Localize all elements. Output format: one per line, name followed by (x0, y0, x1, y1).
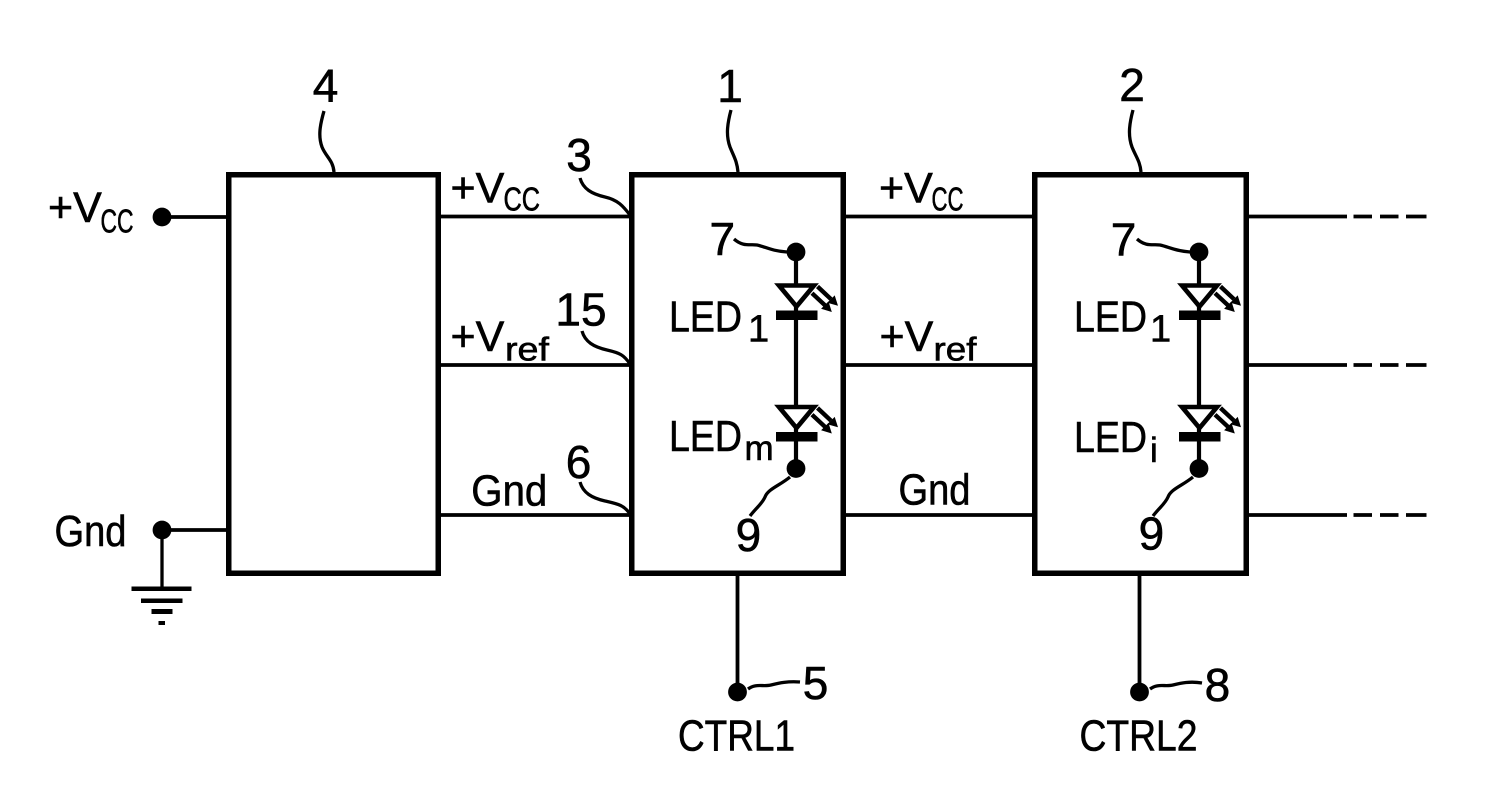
block 2 (LED module box) (1035, 175, 1247, 574)
leader squiggle for 15 (582, 331, 630, 364)
svg-text:LED: LED (669, 413, 742, 461)
svg-text:CC: CC (101, 203, 134, 240)
wire LED string (box2) (1197, 252, 1201, 468)
svg-text:LED: LED (1074, 294, 1147, 342)
svg-text:9: 9 (1139, 508, 1165, 560)
label LEDm (box1) (669, 413, 774, 468)
leader squiggle for 2 (1129, 110, 1141, 172)
label LED1 (box1) (669, 294, 769, 351)
svg-text:+V: +V (451, 165, 505, 213)
svg-text:CTRL1: CTRL1 (678, 712, 795, 761)
label +Vref between box1 and box2 (880, 313, 978, 368)
svg-text:Gnd: Gnd (55, 507, 127, 556)
block 4 (power supply box) (229, 175, 439, 574)
wire bus +Vref box1 to box2 (845, 363, 1033, 367)
svg-text:6: 6 (566, 436, 592, 488)
label LEDi (box2) (1074, 414, 1158, 470)
node CTRL1 dot (728, 683, 747, 702)
svg-text:ref: ref (505, 331, 550, 368)
leader squiggle for 7 (box2) (1137, 239, 1190, 252)
svg-text:LED: LED (669, 294, 742, 342)
node CTRL2 dot (1130, 683, 1149, 702)
wire +Vcc input (165, 215, 227, 219)
svg-text:CC: CC (504, 181, 541, 218)
svg-text:LED: LED (1074, 414, 1147, 462)
svg-text:Gnd: Gnd (471, 467, 547, 516)
svg-text:15: 15 (555, 284, 606, 336)
leader squiggle for 5 (748, 682, 800, 689)
svg-text:+V: +V (451, 313, 505, 361)
LEDi symbol (box2) (1179, 407, 1241, 442)
leader squiggle for 9 (box1) (750, 477, 790, 516)
svg-text:4: 4 (313, 60, 339, 112)
node 7 dot (box2) (1190, 243, 1209, 262)
svg-text:i: i (1150, 431, 1158, 470)
node +Vcc input dot (153, 208, 172, 227)
wire bus +Vcc box1 to box2 (845, 215, 1033, 219)
node 7 dot (box1) (787, 243, 806, 262)
node 9 dot (box2) (1190, 459, 1209, 478)
leader squiggle for 3 (580, 178, 630, 215)
LED1 symbol (box2) (1179, 286, 1241, 321)
wire bus Gnd box4 to box1 (440, 513, 630, 517)
wire bus +Vref box2 continuation (1248, 363, 1347, 367)
svg-text:+V: +V (880, 313, 934, 361)
svg-text:2: 2 (1119, 59, 1145, 111)
wire dashed +Vcc continuation (1354, 215, 1427, 219)
svg-text:7: 7 (1111, 214, 1137, 266)
node Gnd input dot (153, 521, 172, 540)
svg-text:1: 1 (748, 309, 769, 351)
wire LED string (box1) (794, 252, 798, 468)
label +Vref between box4 and box1 (451, 313, 550, 368)
leader squiggle for 8 (1150, 682, 1202, 689)
block 1 (LED module box) (632, 175, 844, 574)
wire CTRL1 (736, 576, 740, 692)
wire dashed +Vref continuation (1354, 363, 1427, 367)
wire Gnd input (165, 528, 227, 532)
wire bus +Vcc box4 to box1 (440, 215, 630, 219)
LED1 symbol (box1) (776, 286, 838, 321)
ground symbol (132, 530, 192, 625)
svg-text:ref: ref (934, 331, 978, 368)
label +Vcc between box1 and box2 (879, 165, 964, 218)
svg-text:9: 9 (736, 509, 762, 561)
wire bus Gnd box2 continuation (1248, 513, 1347, 517)
svg-text:5: 5 (803, 657, 829, 709)
svg-text:CC: CC (932, 181, 964, 218)
leader squiggle for 6 (580, 482, 630, 514)
svg-text:m: m (745, 429, 774, 468)
wire dashed Gnd continuation (1354, 513, 1427, 517)
svg-text:7: 7 (710, 213, 736, 265)
LEDm symbol (box1) (776, 407, 838, 442)
wire bus +Vcc box2 continuation (1248, 215, 1347, 219)
wire bus +Vref box4 to box1 (440, 363, 630, 367)
svg-text:3: 3 (566, 129, 592, 181)
label +Vcc between box4 and box1 (451, 165, 541, 218)
leader squiggle for 4 (320, 111, 334, 172)
label +Vcc input (48, 184, 134, 240)
leader squiggle for 9 (box2) (1153, 477, 1193, 516)
wire CTRL2 (1138, 576, 1142, 692)
leader squiggle for 7 (box1) (734, 239, 787, 252)
node 9 dot (box1) (787, 459, 806, 478)
svg-text:Gnd: Gnd (899, 466, 971, 515)
svg-text:1: 1 (1150, 309, 1171, 351)
svg-text:8: 8 (1205, 659, 1231, 711)
label LED1 (box2) (1074, 294, 1171, 351)
svg-text:CTRL2: CTRL2 (1080, 712, 1198, 761)
svg-text:1: 1 (717, 60, 743, 112)
svg-text:+V: +V (48, 184, 102, 232)
wire bus Gnd box1 to box2 (845, 513, 1033, 517)
leader squiggle for 1 (727, 110, 738, 172)
svg-text:+V: +V (879, 165, 933, 213)
